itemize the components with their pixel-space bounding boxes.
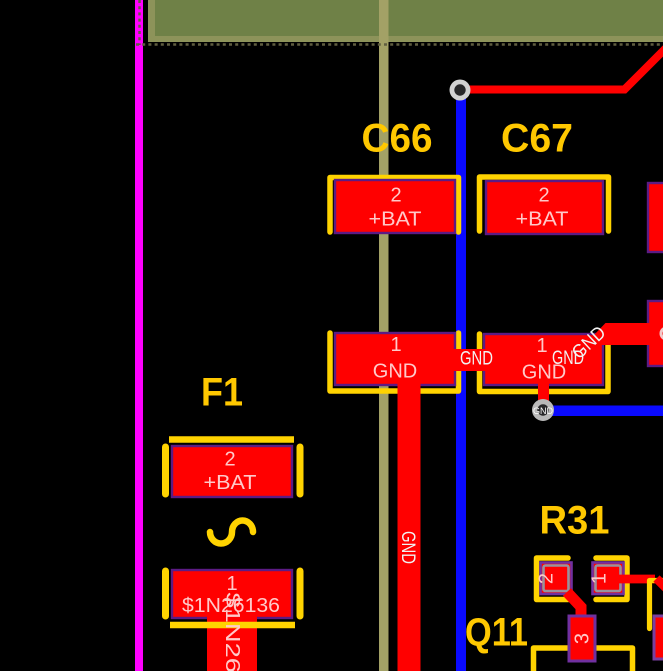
outline Q11 body — [534, 648, 633, 671]
fuse F1 squiggle symbol — [210, 521, 253, 544]
wire red trace below F1 pad1 — [207, 612, 257, 671]
wire red R31 pad1 to right edge (horizontal) — [618, 575, 655, 584]
capacitor C66 pad 2 — [335, 180, 455, 233]
svg-text:GND: GND — [460, 349, 493, 370]
capacitor C67 pad 2 — [486, 181, 603, 234]
fuse F1 pad 2 — [172, 446, 292, 497]
courtyard C67 pad1 bracket — [480, 334, 609, 392]
courtyard R31 pad2 bracket — [537, 558, 569, 600]
svg-text:Q11: Q11 — [465, 611, 528, 655]
net label GND on bridge — [460, 349, 493, 370]
wire red stub C67 pad1 to via — [538, 382, 549, 410]
pad text F1 pad1 — [182, 573, 280, 617]
svg-text:+BAT: +BAT — [369, 209, 422, 231]
pad text C66 pad1 — [373, 334, 417, 383]
wire red trace from via to top right — [460, 46, 663, 90]
wire red elbow C67 pad1 to right pad — [593, 323, 663, 345]
resistor R31 pad 2 — [536, 563, 572, 595]
pad text F1 pad2 — [204, 449, 257, 495]
svg-text:R31: R31 — [540, 499, 610, 543]
zone boundary (dashed) — [136, 0, 663, 45]
svg-text:$1N26136: $1N26136 — [221, 593, 243, 671]
silkscreen circle right edge — [661, 328, 663, 339]
pad right edge top — [648, 183, 663, 252]
net label $1N26 vertical on F1 trace — [221, 593, 243, 671]
svg-text:+BAT: +BAT — [516, 209, 569, 231]
fuse F1 left side bars — [162, 447, 169, 616]
fab line F1 top — [169, 436, 294, 443]
courtyard C66 pad2 bracket — [330, 178, 459, 233]
label R31 — [540, 499, 610, 543]
svg-text:2: 2 — [224, 449, 235, 471]
fab line F1 bottom — [170, 622, 295, 629]
svg-text:GND: GND — [373, 361, 417, 383]
courtyard C67 pad2 bracket — [480, 177, 609, 231]
wire red R31 pad2 to pad3 — [567, 592, 581, 618]
resistor R31 pad 1 — [589, 563, 624, 595]
svg-text:1: 1 — [390, 334, 401, 356]
svg-text:1: 1 — [589, 573, 611, 584]
svg-text:+BAT: +BAT — [204, 472, 257, 494]
wire blue horizontal trace (GND) — [543, 406, 663, 417]
wire red R31 trace diagonal exit — [657, 579, 663, 592]
net label GND diagonal — [568, 322, 610, 363]
capacitor C67 pad 1 — [484, 334, 603, 385]
svg-text:1: 1 — [536, 335, 547, 357]
label Q11 — [465, 611, 528, 655]
pad text C67 pad1 — [522, 335, 566, 384]
net label GND vertical on red trace — [397, 531, 418, 564]
capacitor C66 pad 1 — [335, 333, 455, 385]
svg-text:C67: C67 — [501, 117, 573, 161]
pad text C66 pad2 — [369, 185, 422, 231]
courtyard C66 pad1 bracket — [330, 333, 459, 391]
wire red GND bridge between C66 and C67 — [448, 349, 490, 371]
label F1 — [201, 371, 243, 415]
svg-text:GND: GND — [533, 406, 554, 416]
pad bottom right corner — [654, 616, 663, 659]
svg-text:3: 3 — [572, 633, 594, 644]
via bottom GND — [532, 399, 554, 421]
label C66 — [362, 117, 433, 161]
svg-text:2: 2 — [390, 185, 401, 207]
board outline line (magenta) — [135, 0, 143, 671]
label C67 — [501, 117, 573, 161]
pad text C67 pad2 — [516, 185, 569, 231]
net label GND on C67 pad — [552, 348, 584, 369]
wire olive vertical trace — [379, 0, 389, 671]
svg-text:2: 2 — [538, 185, 549, 207]
svg-text:C66: C66 — [362, 117, 433, 161]
svg-text:2: 2 — [536, 573, 558, 584]
via top — [450, 80, 471, 101]
courtyard R31 pad1 bracket — [596, 558, 627, 600]
copper zone (plane fill, top) — [148, 0, 663, 42]
wire blue vertical trace — [456, 90, 466, 671]
transistor pad 3 — [569, 616, 595, 661]
fuse F1 pad 1 — [172, 570, 292, 618]
svg-text:F1: F1 — [201, 371, 243, 415]
wire red GND trace below C66 pad1 — [398, 380, 421, 671]
pad right edge middle — [648, 301, 663, 366]
svg-text:GND: GND — [397, 531, 418, 564]
fuse F1 right side bars — [297, 447, 304, 616]
courtyard bracket right edge component — [650, 581, 663, 629]
